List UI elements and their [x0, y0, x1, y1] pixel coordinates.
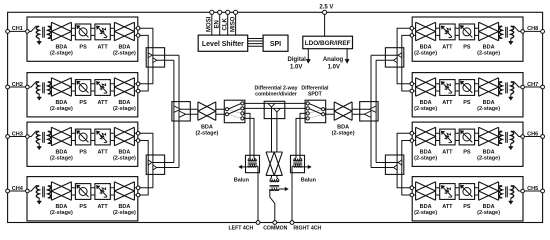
- transformer CH6 secondary winding: [499, 131, 502, 143]
- node switch left throws: [241, 102, 244, 105]
- wire SPDT to balun B: [296, 118, 306, 155]
- channel CH3 block: [27, 122, 138, 166]
- channel CH8 block: [412, 17, 523, 61]
- wire CH6 input A bus: [397, 133, 411, 188]
- port COMMON: [273, 221, 277, 225]
- svg-text:BDA: BDA: [118, 44, 130, 50]
- svg-text:(2-stage): (2-stage): [50, 51, 73, 57]
- SPDT blade B: [309, 109, 322, 114]
- ground CH8 balun: [510, 38, 512, 41]
- wire MISO stub: [235, 12, 237, 35]
- transformer CH8 core: [506, 27, 508, 38]
- wire BDA1 to PS CH3: [71, 133, 75, 140]
- phase shifter PS CH1: [75, 24, 90, 40]
- node CH7 input: [521, 85, 525, 89]
- svg-text:Level Shifter: Level Shifter: [202, 41, 244, 48]
- wire right inner vertical bus: [375, 60, 377, 162]
- wire BDA left to switch: [216, 109, 225, 114]
- combiner CH3/CH4 box: [146, 155, 164, 174]
- wire inputs to BDA1 CH8: [412, 28, 415, 35]
- wire CH7 port to block: [523, 86, 543, 88]
- port CLK: [226, 10, 230, 14]
- port CH3: [6, 135, 10, 139]
- wire combiner/divider through B: [264, 107, 306, 109]
- ground CH1 balun: [38, 38, 40, 41]
- wire balun left to LEFT 4CH port: [257, 166, 258, 223]
- switch left open throw blades: [228, 110, 241, 119]
- wire inputs to BDA1 CH5: [412, 188, 415, 195]
- amplifier BDA2 CH4 (2-stage): [114, 182, 134, 201]
- svg-text:CH3: CH3: [12, 131, 23, 137]
- node CH3 input: [26, 135, 30, 139]
- transformer CH5 secondary winding: [499, 186, 502, 198]
- wire BDA1 to ATT CH6: [436, 133, 440, 140]
- transformer CH6 primary winding: [511, 131, 514, 143]
- amplifier BDA1 CH6 (2-stage): [416, 127, 436, 146]
- svg-text:(2-stage): (2-stage): [113, 51, 136, 57]
- transformer CH7 secondary winding: [499, 82, 502, 94]
- wire PS to BDA2 CH8: [475, 28, 479, 35]
- ground CH7 balun: [510, 94, 512, 97]
- attenuator ATT CH7: [440, 80, 455, 96]
- amplifier BDA2 CH6 (2-stage): [479, 127, 499, 146]
- wire CH8 input B bus: [402, 35, 411, 91]
- node CH2 input: [26, 85, 30, 89]
- svg-text:SPDT: SPDT: [308, 91, 323, 97]
- svg-text:BDA: BDA: [337, 124, 349, 130]
- wire CH1 output B bus: [139, 35, 148, 91]
- node CH6 input: [521, 135, 525, 139]
- wire PS to BDA2 CH6: [475, 133, 479, 140]
- channel CH2 block: [27, 73, 138, 117]
- svg-text:ATT: ATT: [97, 100, 108, 106]
- svg-text:CH1: CH1: [12, 26, 23, 32]
- channel CH7 block: [412, 73, 523, 117]
- wire BDA1 to ATT CH8: [436, 28, 440, 35]
- attenuator ATT CH8: [440, 24, 455, 40]
- wire BDA2 to outputs CH3: [134, 133, 137, 140]
- switch left blade A: [228, 104, 241, 109]
- port CH4: [6, 189, 10, 193]
- wire PS to BDA2 CH7: [475, 84, 479, 91]
- transformer CH3 primary winding: [36, 131, 39, 143]
- svg-text:(2-stage): (2-stage): [414, 210, 437, 216]
- wire into balun right primary: [294, 155, 302, 159]
- channel CH6 block: [412, 122, 523, 166]
- svg-text:ATT: ATT: [97, 44, 108, 50]
- splitter CH8/CH7 box: [385, 48, 403, 67]
- svg-text:BDA: BDA: [483, 204, 495, 210]
- combiner CH1/CH2 amp A: [148, 53, 152, 58]
- combiner CH1/CH2 box: [146, 48, 164, 67]
- wire EN stub: [219, 12, 221, 35]
- combiner left mid amp B: [179, 111, 186, 117]
- combiner CH3/CH4 amp B: [153, 165, 157, 170]
- amplifier BDA1 CH4 (2-stage): [51, 182, 71, 201]
- transformer balun right primary winding: [293, 160, 302, 161]
- svg-text:CH8: CH8: [527, 26, 538, 32]
- wire common secondary to termination arrow: [279, 188, 285, 190]
- node CH5 input: [521, 189, 525, 193]
- SPI block box: [263, 35, 288, 51]
- wire BDA1 to PS CH4: [71, 188, 75, 195]
- wire BDA1 to ATT CH7: [436, 84, 440, 91]
- wire splitter CH8/CH7 out A: [371, 54, 398, 56]
- wire combiner CH3/CH4 out A: [152, 162, 174, 164]
- wire inputs to BDA1 CH6: [412, 133, 415, 140]
- svg-text:BDA: BDA: [483, 44, 495, 50]
- attenuator ATT CH1: [95, 24, 110, 40]
- node CH2 outputs: [136, 82, 140, 86]
- svg-text:CH6: CH6: [527, 131, 538, 137]
- wire ATT to BDA2 CH2: [110, 84, 114, 91]
- svg-text:BDA: BDA: [118, 100, 130, 106]
- transformer CH1 secondary winding: [48, 26, 51, 38]
- svg-text:BDA: BDA: [420, 204, 432, 210]
- transformer CH2 primary winding: [36, 82, 39, 94]
- transformer CH5 core: [506, 186, 508, 197]
- wire PS to ATT CH1: [91, 28, 95, 35]
- svg-text:MOSI: MOSI: [207, 16, 213, 32]
- port EN: [218, 10, 222, 14]
- switch CH3 input: [29, 131, 39, 136]
- attenuator ATT CH6: [440, 129, 455, 145]
- svg-text:(2-stage): (2-stage): [332, 131, 355, 137]
- wire PS to BDA2 CH5: [475, 188, 479, 195]
- transformer common primary winding: [270, 180, 279, 182]
- phase shifter PS CH6: [459, 129, 474, 145]
- svg-text:Balun: Balun: [234, 177, 250, 183]
- svg-text:ATT: ATT: [97, 150, 108, 156]
- wire BDA2 to outputs CH1: [134, 28, 137, 35]
- attenuator ATT CH2: [95, 80, 110, 96]
- transformer CH8 primary winding: [511, 26, 514, 38]
- transformer balun right secondary winding: [293, 166, 302, 167]
- svg-text:CH5: CH5: [527, 186, 538, 192]
- wire inputs to BDA1 CH7: [412, 84, 415, 91]
- wire ATT to PS CH7: [455, 84, 459, 91]
- node switch left poles: [225, 108, 228, 111]
- transformer CH3 core: [43, 132, 45, 143]
- switch Differential SPDT box: [305, 100, 326, 123]
- SPDT blade A: [309, 104, 322, 109]
- transformer CH4 primary winding: [36, 186, 39, 198]
- switch left DPDT box: [224, 100, 245, 123]
- wire CH4 port to block: [8, 190, 27, 192]
- svg-text:CH7: CH7: [527, 82, 538, 88]
- svg-text:1.0V: 1.0V: [290, 64, 302, 70]
- amplifier BDA2 CH3 (2-stage): [114, 127, 134, 146]
- wire CH8 input A bus: [397, 28, 411, 84]
- transformer CH4 core: [43, 186, 45, 197]
- svg-text:LDO/BGR/IREF: LDO/BGR/IREF: [305, 40, 351, 47]
- port MOSI: [210, 10, 214, 14]
- wire CLK stub: [227, 12, 229, 35]
- transformer CH2 core: [43, 82, 45, 93]
- combiner/divider amp A: [268, 103, 275, 107]
- amplifier BDA2 CH2 (2-stage): [114, 78, 134, 97]
- splitter CH6/CH5 amp A: [398, 160, 402, 165]
- wire ATT to BDA2 CH4: [110, 188, 114, 195]
- wire balun right to RIGHT 4CH port: [292, 166, 293, 223]
- wire into balun left primary: [248, 155, 256, 159]
- port CH2: [6, 85, 10, 89]
- SPI bus wires: [248, 39, 263, 47]
- svg-text:(2-stage): (2-stage): [477, 51, 500, 57]
- phase shifter PS CH5: [459, 184, 474, 200]
- node CH6 inputs: [410, 132, 414, 136]
- balun right box: [291, 155, 305, 172]
- amplifier BDA2 CH8 (2-stage): [479, 22, 499, 41]
- Analog 1.0V supply arrow: [346, 49, 348, 60]
- amplifier BDA2 CH1 (2-stage): [114, 22, 134, 41]
- SPDT open throw blades: [309, 110, 322, 119]
- amplifier BDA1 CH5 (2-stage): [416, 182, 436, 201]
- svg-text:(2-stage): (2-stage): [113, 156, 136, 162]
- attenuator ATT CH5: [440, 184, 455, 200]
- switch CH5 input: [511, 186, 521, 191]
- wire splitter CH6/CH5 out B: [371, 167, 393, 169]
- splitter CH8/CH7 amp B: [393, 58, 397, 63]
- splitter right mid box: [360, 102, 378, 121]
- node CH1 outputs: [136, 26, 140, 30]
- splitter CH6/CH5 amp B: [393, 165, 397, 170]
- node CH4 outputs: [136, 186, 140, 190]
- wire balun right termination arrow: [301, 166, 308, 168]
- node CH4 input: [26, 189, 30, 193]
- wire mid combiner to BDA left: [181, 109, 198, 114]
- wire ATT to PS CH8: [455, 28, 459, 35]
- svg-text:COMMON: COMMON: [263, 225, 287, 231]
- port CH1: [6, 30, 10, 34]
- wire combiner CH1/CH2 out B: [157, 59, 174, 61]
- ground CH5 balun: [510, 198, 512, 201]
- wire right outer vertical bus: [370, 55, 372, 167]
- svg-text:ATT: ATT: [442, 100, 453, 106]
- splitter right mid amp B: [364, 111, 371, 117]
- wire CH6 input B bus: [402, 141, 411, 196]
- wire combiner/divider down B: [276, 112, 278, 152]
- wire SPDT to BDA right: [325, 109, 335, 114]
- wire PS to ATT CH4: [91, 188, 95, 195]
- port RIGHT 4CH: [290, 221, 294, 225]
- svg-text:LEFT 4CH: LEFT 4CH: [229, 225, 254, 231]
- svg-text:(2-stage): (2-stage): [414, 51, 437, 57]
- channel CH1 block: [27, 17, 138, 61]
- LDO/BGR/IREF box: [303, 36, 353, 49]
- wire CH3 port to block: [8, 136, 27, 138]
- wire balun left termination arrow: [242, 166, 249, 168]
- wire CH8 port to block: [523, 30, 543, 32]
- svg-text:PS: PS: [463, 44, 471, 50]
- wire BDA2 to outputs CH4: [134, 188, 137, 195]
- svg-text:(2-stage): (2-stage): [414, 106, 437, 112]
- svg-text:BDA: BDA: [483, 150, 495, 156]
- channel CH5 block: [412, 177, 523, 221]
- amplifier BDA1 CH2 (2-stage): [51, 78, 71, 97]
- wire 2.5V supply: [324, 12, 326, 36]
- transformer CH7 primary winding: [511, 82, 514, 94]
- svg-text:EN: EN: [214, 20, 220, 28]
- transformer common secondary winding: [270, 189, 279, 191]
- attenuator ATT CH3: [95, 129, 110, 145]
- wire BDA1 to PS CH2: [71, 84, 75, 91]
- node CH1 input: [26, 30, 30, 34]
- svg-text:BDA: BDA: [420, 150, 432, 156]
- svg-text:SPI: SPI: [270, 41, 281, 48]
- switch CH4 input: [29, 186, 39, 191]
- svg-text:(2-stage): (2-stage): [50, 106, 73, 112]
- transformer balun left primary winding: [248, 160, 257, 161]
- svg-text:PS: PS: [463, 150, 471, 156]
- svg-text:PS: PS: [79, 150, 87, 156]
- svg-text:BDA: BDA: [55, 204, 67, 210]
- svg-text:CH4: CH4: [12, 186, 24, 192]
- switch left blade B: [228, 109, 241, 114]
- svg-text:BDA: BDA: [55, 44, 67, 50]
- svg-text:(2-stage): (2-stage): [477, 156, 500, 162]
- wire BDA1 to ATT CH5: [436, 188, 440, 195]
- amplifier BDA2 CH7 (2-stage): [479, 78, 499, 97]
- svg-text:BDA: BDA: [118, 150, 130, 156]
- ground CH6 balun: [510, 144, 512, 147]
- Digital 1.0V supply arrow: [307, 49, 309, 60]
- wire CH1 port to block: [8, 30, 27, 32]
- phase shifter PS CH2: [75, 80, 90, 96]
- wire ATT to BDA2 CH3: [110, 133, 114, 140]
- svg-text:BDA: BDA: [118, 204, 130, 210]
- svg-text:2.5 V: 2.5 V: [319, 4, 333, 10]
- svg-text:PS: PS: [463, 204, 471, 210]
- svg-text:BDA: BDA: [55, 150, 67, 156]
- combiner CH1/CH2 amp B: [153, 58, 157, 63]
- wire combiner CH1/CH2 out A: [152, 54, 179, 56]
- node CH5 inputs: [410, 186, 414, 190]
- wire CH6 port to block: [523, 136, 543, 138]
- ground CH2 balun: [38, 94, 40, 97]
- svg-text:(2-stage): (2-stage): [414, 156, 437, 162]
- wire ATT to BDA2 CH1: [110, 28, 114, 35]
- amplifier BDA1 CH8 (2-stage): [416, 22, 436, 41]
- wire CH5 port to block: [523, 190, 543, 192]
- transformer CH8 secondary winding: [499, 26, 502, 38]
- wire CH3 output A bus: [139, 133, 153, 188]
- svg-text:Digital: Digital: [288, 57, 307, 63]
- svg-text:Analog: Analog: [323, 57, 344, 63]
- amplifier BDA1 CH3 (2-stage): [51, 127, 71, 146]
- wire switch left to balun B: [244, 118, 254, 155]
- port 2.5V: [323, 10, 327, 14]
- port CH7: [541, 85, 545, 89]
- svg-text:(2-stage): (2-stage): [477, 210, 500, 216]
- amplifier common BDA vertical: [266, 152, 282, 175]
- svg-text:BDA: BDA: [201, 124, 213, 130]
- ground CH4 balun: [38, 198, 40, 201]
- svg-text:(2-stage): (2-stage): [50, 210, 73, 216]
- amplifier central BDA left (2-stage): [198, 102, 216, 121]
- wire CH1 output A bus: [139, 28, 153, 84]
- wire BDA right to mid splitter: [352, 109, 369, 114]
- wire BDA to common balun primary: [270, 175, 279, 180]
- wire switch left to combiner A: [244, 102, 264, 104]
- wire CH3 output B bus: [139, 141, 148, 196]
- wire PS to ATT CH3: [91, 133, 95, 140]
- svg-text:PS: PS: [463, 100, 471, 106]
- wire combiner/divider through A: [264, 102, 306, 104]
- svg-text:ATT: ATT: [97, 204, 108, 210]
- amplifier BDA1 CH1 (2-stage): [51, 22, 71, 41]
- transformer CH2 secondary winding: [48, 82, 51, 94]
- wire switch left to combiner B: [244, 107, 264, 109]
- wire splitter CH8/CH7 out B: [376, 59, 393, 61]
- channel CH4 block: [27, 177, 138, 221]
- transformer CH7 core: [506, 82, 508, 93]
- splitter right mid amp A: [369, 106, 376, 112]
- phase shifter PS CH4: [75, 184, 90, 200]
- ground CH3 balun: [38, 144, 40, 147]
- switch CH2 input: [29, 82, 39, 87]
- combiner/divider amp B: [274, 108, 281, 112]
- Level Shifter U-LS box: [198, 35, 248, 51]
- node CH7 inputs: [410, 82, 414, 86]
- splitter CH8/CH7 amp A: [398, 53, 402, 58]
- wire left inner vertical bus: [173, 60, 175, 162]
- amplifier BDA2 CH5 (2-stage): [479, 182, 499, 201]
- phase shifter PS CH3: [75, 129, 90, 145]
- svg-text:MISO: MISO: [230, 16, 236, 32]
- switch CH8 input: [511, 26, 521, 31]
- switch CH7 input: [511, 82, 521, 87]
- transformer CH1 primary winding: [36, 26, 39, 38]
- svg-text:Balun: Balun: [301, 177, 317, 183]
- transformer balun left core: [248, 163, 257, 164]
- svg-text:(2-stage): (2-stage): [477, 106, 500, 112]
- phase shifter PS CH8: [459, 24, 474, 40]
- amplifier central BDA right (2-stage): [334, 102, 352, 121]
- transformer CH5 primary winding: [511, 186, 514, 198]
- svg-text:combiner/divider: combiner/divider: [255, 91, 297, 97]
- balun left box: [246, 155, 260, 172]
- svg-text:CH2: CH2: [12, 82, 23, 88]
- wire CH2 port to block: [8, 86, 27, 88]
- transformer CH3 secondary winding: [48, 131, 51, 143]
- attenuator ATT CH4: [95, 184, 110, 200]
- wire ATT to PS CH6: [455, 133, 459, 140]
- node SPDT throws: [306, 102, 309, 105]
- svg-text:PS: PS: [79, 100, 87, 106]
- switch CH6 input: [511, 131, 521, 136]
- splitter CH6/CH5 box: [385, 155, 403, 174]
- port CH8: [541, 30, 545, 34]
- combiner CH3/CH4 amp A: [148, 160, 152, 165]
- wire combiner/divider down A: [271, 107, 273, 152]
- svg-text:CLK: CLK: [222, 17, 228, 30]
- wire BDA1 to PS CH1: [71, 28, 75, 35]
- wire combiner CH3/CH4 out B: [157, 167, 179, 169]
- node CH8 input: [521, 30, 525, 34]
- transformer common core: [270, 185, 280, 186]
- svg-text:(2-stage): (2-stage): [195, 131, 218, 137]
- transformer CH6 core: [506, 132, 508, 143]
- combiner/divider box: [264, 101, 285, 118]
- transformer CH4 secondary winding: [48, 186, 51, 198]
- svg-text:(2-stage): (2-stage): [113, 106, 136, 112]
- svg-text:BDA: BDA: [420, 44, 432, 50]
- svg-text:BDA: BDA: [420, 100, 432, 106]
- combiner left mid amp A: [174, 106, 181, 112]
- wire left outer vertical bus: [178, 55, 180, 167]
- amplifier BDA1 CH7 (2-stage): [416, 78, 436, 97]
